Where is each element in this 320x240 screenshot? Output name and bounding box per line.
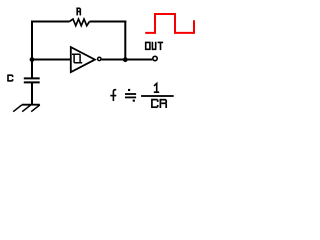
wire: inverter input xyxy=(32,59,70,61)
node: right junction dot xyxy=(123,57,128,62)
terminal: OUT open circle xyxy=(153,56,157,60)
formula: denominator CR xyxy=(151,99,166,108)
ground hatch 2 xyxy=(22,105,31,112)
capacitor C value label xyxy=(7,75,12,81)
formula: approx-equal bottom dot xyxy=(133,100,135,102)
capacitor C top plate xyxy=(24,77,40,79)
wire: left vertical xyxy=(31,21,33,79)
formula: approx-equal upper bar xyxy=(125,93,136,95)
wire: inverter output to terminal xyxy=(102,59,153,61)
ground hatch 3 xyxy=(31,105,40,112)
wire: right vertical xyxy=(124,21,126,60)
wire: top horizontal right segment xyxy=(90,21,127,23)
wire: capacitor to ground xyxy=(31,82,33,104)
formula: numerator 1 xyxy=(154,83,159,92)
formula: approx-equal lower bar xyxy=(125,97,136,99)
op-amp U1 output bubble xyxy=(98,57,101,60)
formula: approx-equal top dot xyxy=(128,89,130,91)
label OUT xyxy=(146,42,163,50)
op-amp U1 hysteresis mark xyxy=(72,54,82,63)
capacitor C bottom plate xyxy=(24,81,40,83)
formula: f xyxy=(110,90,116,101)
node: left junction dot xyxy=(30,57,35,62)
wire: top horizontal left segment xyxy=(31,21,70,23)
op-amp U1 Schmitt inverter triangle xyxy=(71,47,95,72)
ground hatch 1 xyxy=(13,105,22,112)
ground bar xyxy=(22,104,40,106)
waveform: red square wave xyxy=(145,14,194,33)
formula: fraction bar xyxy=(141,95,174,97)
resistor R value label xyxy=(76,8,80,16)
resistor R zigzag xyxy=(70,19,90,26)
